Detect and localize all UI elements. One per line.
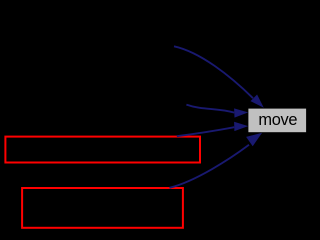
svg-text:move: move [258,111,297,129]
